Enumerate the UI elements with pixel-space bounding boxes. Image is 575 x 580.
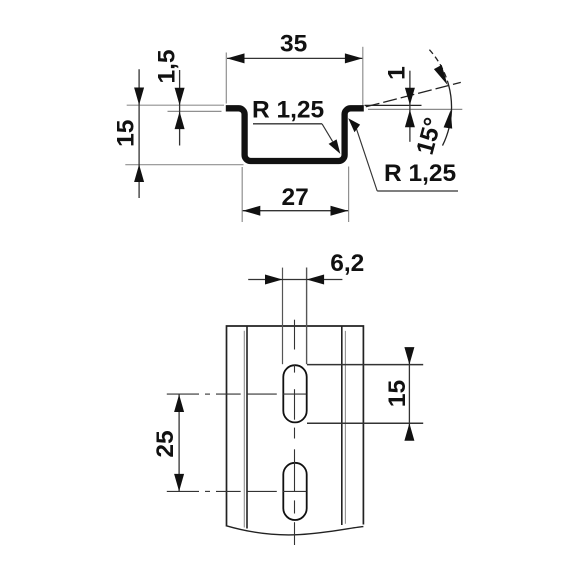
slot2 horizontal centerline <box>167 490 306 492</box>
ext line 27 left <box>241 167 243 222</box>
bend line left dark <box>246 326 248 529</box>
ext line 6,2 right <box>306 268 308 365</box>
slot 1 <box>283 365 306 422</box>
ext line 6,2 left <box>282 268 284 365</box>
label R 1,25 (top, inner-left radius) <box>252 97 340 154</box>
dimension 25 (slot spacing) <box>152 395 184 492</box>
svg-text:15: 15 <box>113 120 140 147</box>
tip reference line gray (right) <box>368 108 462 110</box>
dimension 1 (tip) <box>383 66 415 142</box>
ext line 27 right <box>348 167 350 223</box>
ext line 15 top <box>307 364 423 366</box>
svg-text:25: 25 <box>152 430 179 457</box>
bend line right dark <box>341 326 343 525</box>
svg-text:1,5: 1,5 <box>154 49 181 83</box>
ext line flange-bottom left <box>168 110 222 112</box>
svg-text:R 1,25: R 1,25 <box>252 97 324 124</box>
ext line 35 left <box>225 53 227 104</box>
angle arc dashed upper part <box>429 50 448 85</box>
break line <box>226 526 363 535</box>
svg-text:15: 15 <box>384 380 411 407</box>
svg-text:6,2: 6,2 <box>330 250 364 277</box>
bend line right thin <box>344 331 346 524</box>
dimension 27 <box>243 184 349 216</box>
slot1 horizontal centerline <box>167 393 306 395</box>
ext line flange-top left <box>127 104 224 106</box>
15 deg dashed line <box>366 82 461 106</box>
label R 1,25 (bottom, right radius) <box>348 118 458 191</box>
svg-text:15°: 15° <box>412 115 448 158</box>
ext line 15 bottom <box>307 422 423 424</box>
svg-text:1: 1 <box>383 66 410 80</box>
angle arrows on arc <box>434 65 448 85</box>
bend line left thin <box>243 331 245 528</box>
DIN rail profile (thick) <box>226 108 364 161</box>
plate outline <box>227 326 364 527</box>
dimension 15 (profile height) <box>113 69 145 198</box>
slot vertical centerline <box>294 320 296 545</box>
dimension 35 <box>227 31 362 64</box>
flange-top extension short black line (right) <box>365 104 422 106</box>
ext line 35 right <box>362 47 364 109</box>
slot 2 <box>283 463 306 520</box>
svg-text:R 1,25: R 1,25 <box>384 160 456 187</box>
angle arc solid lower part <box>443 85 452 146</box>
svg-text:27: 27 <box>281 184 308 211</box>
dimension 1,5 <box>154 49 185 145</box>
dimension 15 (slot length) <box>384 347 414 441</box>
dimension 6,2 <box>248 250 364 285</box>
svg-text:35: 35 <box>280 31 307 58</box>
ext line bottom-outer left <box>125 164 243 166</box>
